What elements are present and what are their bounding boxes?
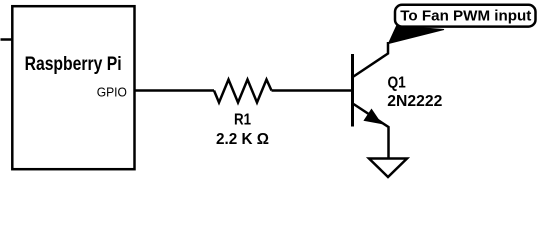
- svg-text:2N2222: 2N2222: [387, 93, 442, 110]
- transistor Q1 collector lead: [354, 42, 389, 77]
- wire resistor to transistor base: [272, 89, 353, 92]
- Raspberry Pi box U1: [12, 6, 134, 169]
- transistor Q1 emitter arrow: [365, 110, 380, 123]
- transistor Q1 emitter lead: [354, 104, 389, 158]
- wire stub left of Raspberry Pi: [1, 38, 13, 41]
- svg-text:R1: R1: [234, 112, 251, 129]
- callout tail to fan pwm: [389, 26, 445, 44]
- svg-text:GPIO: GPIO: [97, 84, 127, 99]
- svg-text:Raspberry Pi: Raspberry Pi: [25, 54, 122, 75]
- ground symbol: [369, 159, 407, 178]
- svg-text:To Fan PWM input: To Fan PWM input: [400, 7, 531, 24]
- transistor Q1 base bar: [351, 54, 354, 127]
- callout box To Fan PWM input: [395, 5, 536, 27]
- wire GPIO to resistor: [135, 89, 215, 92]
- svg-text:Q1: Q1: [388, 75, 406, 92]
- resistor R1: [214, 80, 272, 103]
- svg-text:2.2 K Ω: 2.2 K Ω: [216, 131, 269, 148]
